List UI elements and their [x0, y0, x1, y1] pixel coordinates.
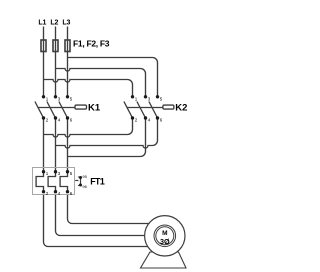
svg-text:2: 2	[46, 191, 49, 196]
svg-text:K1: K1	[88, 103, 101, 114]
svg-text:6: 6	[70, 118, 73, 123]
svg-text:6: 6	[70, 191, 73, 196]
svg-text:2: 2	[46, 118, 49, 123]
svg-text:K2: K2	[175, 103, 187, 114]
svg-text:L3: L3	[62, 20, 70, 27]
svg-text:96: 96	[82, 184, 87, 189]
svg-text:4: 4	[148, 118, 151, 123]
svg-text:5: 5	[70, 96, 73, 101]
svg-text:4: 4	[58, 191, 61, 196]
svg-text:3: 3	[58, 171, 61, 176]
svg-text:5: 5	[70, 171, 73, 176]
svg-text:95: 95	[82, 174, 87, 179]
svg-text:6: 6	[160, 118, 163, 123]
svg-text:L2: L2	[50, 20, 58, 27]
svg-text:2: 2	[135, 118, 138, 123]
svg-text:L1: L1	[38, 20, 46, 27]
svg-text:3: 3	[58, 96, 61, 101]
svg-text:3: 3	[148, 96, 151, 101]
svg-text:1: 1	[46, 171, 49, 176]
svg-text:F1, F2, F3: F1, F2, F3	[73, 39, 110, 49]
svg-text:1: 1	[135, 96, 138, 101]
svg-text:FT1: FT1	[90, 177, 105, 187]
svg-text:4: 4	[58, 118, 61, 123]
svg-text:3Ø: 3Ø	[160, 237, 170, 246]
svg-text:M: M	[162, 230, 167, 237]
svg-text:5: 5	[160, 96, 163, 101]
svg-text:1: 1	[46, 96, 49, 101]
